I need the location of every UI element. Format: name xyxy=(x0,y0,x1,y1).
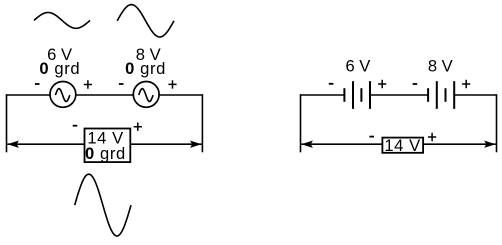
arrowhead right (right circuit) xyxy=(484,141,496,148)
polarity + of battery B2 xyxy=(462,80,470,88)
AC source V2 sine glyph xyxy=(139,89,153,102)
svg-text:0 grd: 0 grd xyxy=(85,144,126,163)
AC source V2 circle xyxy=(133,82,159,108)
svg-text:0 grd: 0 grd xyxy=(39,59,80,78)
battery B2 short plate 3 xyxy=(445,88,447,102)
battery B2 short plate 1 xyxy=(427,88,429,102)
wire: right vertical conductor of left circuit xyxy=(201,94,203,152)
value box for right total xyxy=(382,138,423,153)
svg-text:14 V: 14 V xyxy=(384,136,421,155)
AC source V1 sine glyph xyxy=(55,89,69,102)
polarity + of total voltage (right circuit) xyxy=(428,133,436,141)
total voltage measurement line (right circuit) xyxy=(301,143,495,145)
wire: conductor from left corner to battery B1 xyxy=(301,94,345,96)
wire: conductor between B1 and B2 xyxy=(370,94,428,96)
battery B1 long plate 4 xyxy=(369,81,371,109)
total voltage measurement line (left circuit) xyxy=(7,143,201,145)
arrowhead right (left circuit) xyxy=(190,141,202,148)
polarity - of total voltage (right circuit) xyxy=(369,136,374,138)
polarity - of source V1 xyxy=(35,83,40,85)
wire: right vertical conductor of right circuit xyxy=(496,94,498,152)
polarity + of source V1 xyxy=(84,80,92,89)
polarity + of source V2 xyxy=(168,80,176,88)
battery B1 short plate 1 xyxy=(343,88,345,102)
svg-text:0 grd: 0 grd xyxy=(125,59,166,78)
svg-text:6 V: 6 V xyxy=(345,57,370,76)
battery B2 long plate 2 xyxy=(436,81,438,109)
polarity - of total voltage (left circuit) xyxy=(73,125,78,127)
polarity - of battery B1 xyxy=(329,83,334,85)
arrowhead left (right circuit) xyxy=(301,141,313,148)
polarity + of battery B1 xyxy=(378,80,386,88)
svg-text:8 V: 8 V xyxy=(428,57,453,76)
battery B1 long plate 2 xyxy=(352,81,354,109)
waveform of total 14 V sine xyxy=(75,174,131,236)
polarity - of source V2 xyxy=(119,83,124,85)
waveform of source V2 (8 V sine) xyxy=(117,5,174,37)
battery B2 long plate 4 xyxy=(453,81,455,109)
wire: top conductor of left circuit xyxy=(7,94,203,96)
value box for left total xyxy=(85,129,131,163)
AC source V1 circle xyxy=(50,82,76,108)
wire: conductor from B2 to right corner xyxy=(454,94,496,96)
arrowhead left (left circuit) xyxy=(7,141,19,148)
battery B1 short plate 3 xyxy=(360,88,362,102)
wire: left vertical conductor of left circuit xyxy=(6,94,8,152)
waveform of source V1 (6 V sine) xyxy=(34,13,90,29)
polarity + of total voltage (left circuit) xyxy=(134,123,142,131)
wire: left vertical conductor of right circuit xyxy=(300,94,302,152)
polarity - of battery B2 xyxy=(413,83,418,85)
